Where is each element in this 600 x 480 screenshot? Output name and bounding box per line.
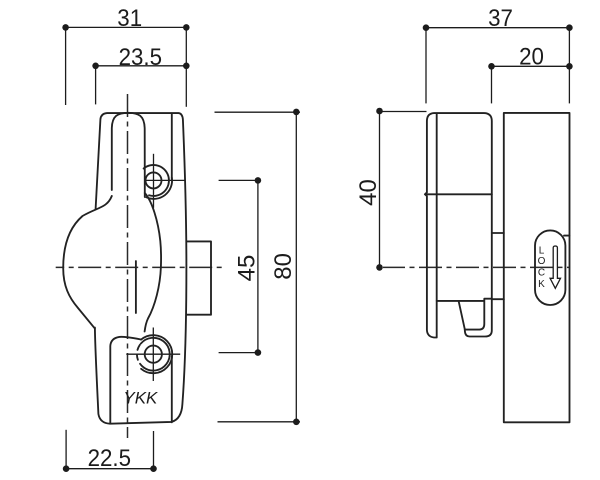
lower screw crosshair xyxy=(152,328,154,382)
dimension 80 xyxy=(215,109,301,426)
svg-text:K: K xyxy=(538,279,545,290)
left view: body outline xyxy=(95,113,186,424)
centerline vertical left view xyxy=(127,94,129,438)
svg-text:20: 20 xyxy=(519,43,544,70)
left view: inner bottom section xyxy=(110,337,141,423)
right view: step to plate xyxy=(492,298,504,300)
left view: latch tab xyxy=(186,241,211,314)
centerline horizontal left view xyxy=(56,266,226,268)
upper screw boss arc xyxy=(146,178,172,199)
right view: slot top line xyxy=(437,300,484,302)
right view: divider line xyxy=(427,193,492,195)
left view: knob right bulge xyxy=(145,193,162,332)
LOCK letters xyxy=(538,246,546,290)
left view: inner face top edge line xyxy=(171,113,173,180)
dimension 22.5 xyxy=(63,430,157,472)
right view: hook slope xyxy=(459,301,465,329)
lower screw washer dashed part xyxy=(137,344,144,368)
lower screw washer arc xyxy=(141,338,170,371)
svg-text:O: O xyxy=(538,256,546,267)
right view: oval to plate line xyxy=(564,235,569,237)
svg-text:C: C xyxy=(538,268,545,279)
dimension 40 xyxy=(355,108,426,271)
dimension 37 xyxy=(423,4,573,103)
dimension 45 xyxy=(219,177,262,356)
upper screw washer arc xyxy=(144,165,169,196)
dimension 31 xyxy=(62,4,189,107)
dimension 20 xyxy=(488,43,573,104)
lower screw hole xyxy=(145,346,162,363)
right view: keeper plate xyxy=(504,113,570,422)
svg-text:22.5: 22.5 xyxy=(88,444,131,471)
right view: lock indicator oval xyxy=(535,230,565,305)
svg-text:YKK: YKK xyxy=(123,389,158,408)
lower screw boss arc xyxy=(141,335,172,373)
centerline horizontal right view xyxy=(383,266,569,268)
svg-text:23.5: 23.5 xyxy=(119,43,162,70)
left view: lever xyxy=(112,113,145,197)
right view: hook inner xyxy=(465,299,492,330)
upper screw crosshair xyxy=(153,154,155,208)
left view: knob left bulge xyxy=(63,196,112,328)
svg-text:40: 40 xyxy=(355,179,382,206)
dimension 23.5 xyxy=(92,43,189,104)
right view: hook outer xyxy=(465,299,492,337)
left view: knob grip ridge xyxy=(135,261,137,313)
svg-text:45: 45 xyxy=(234,255,261,282)
right view: tongue top step xyxy=(492,232,504,234)
upper screw hole xyxy=(146,172,162,188)
lock arrow xyxy=(550,246,560,288)
svg-text:80: 80 xyxy=(270,253,297,280)
svg-text:31: 31 xyxy=(117,4,142,31)
right view: body outline xyxy=(425,113,492,337)
svg-text:37: 37 xyxy=(488,4,513,31)
